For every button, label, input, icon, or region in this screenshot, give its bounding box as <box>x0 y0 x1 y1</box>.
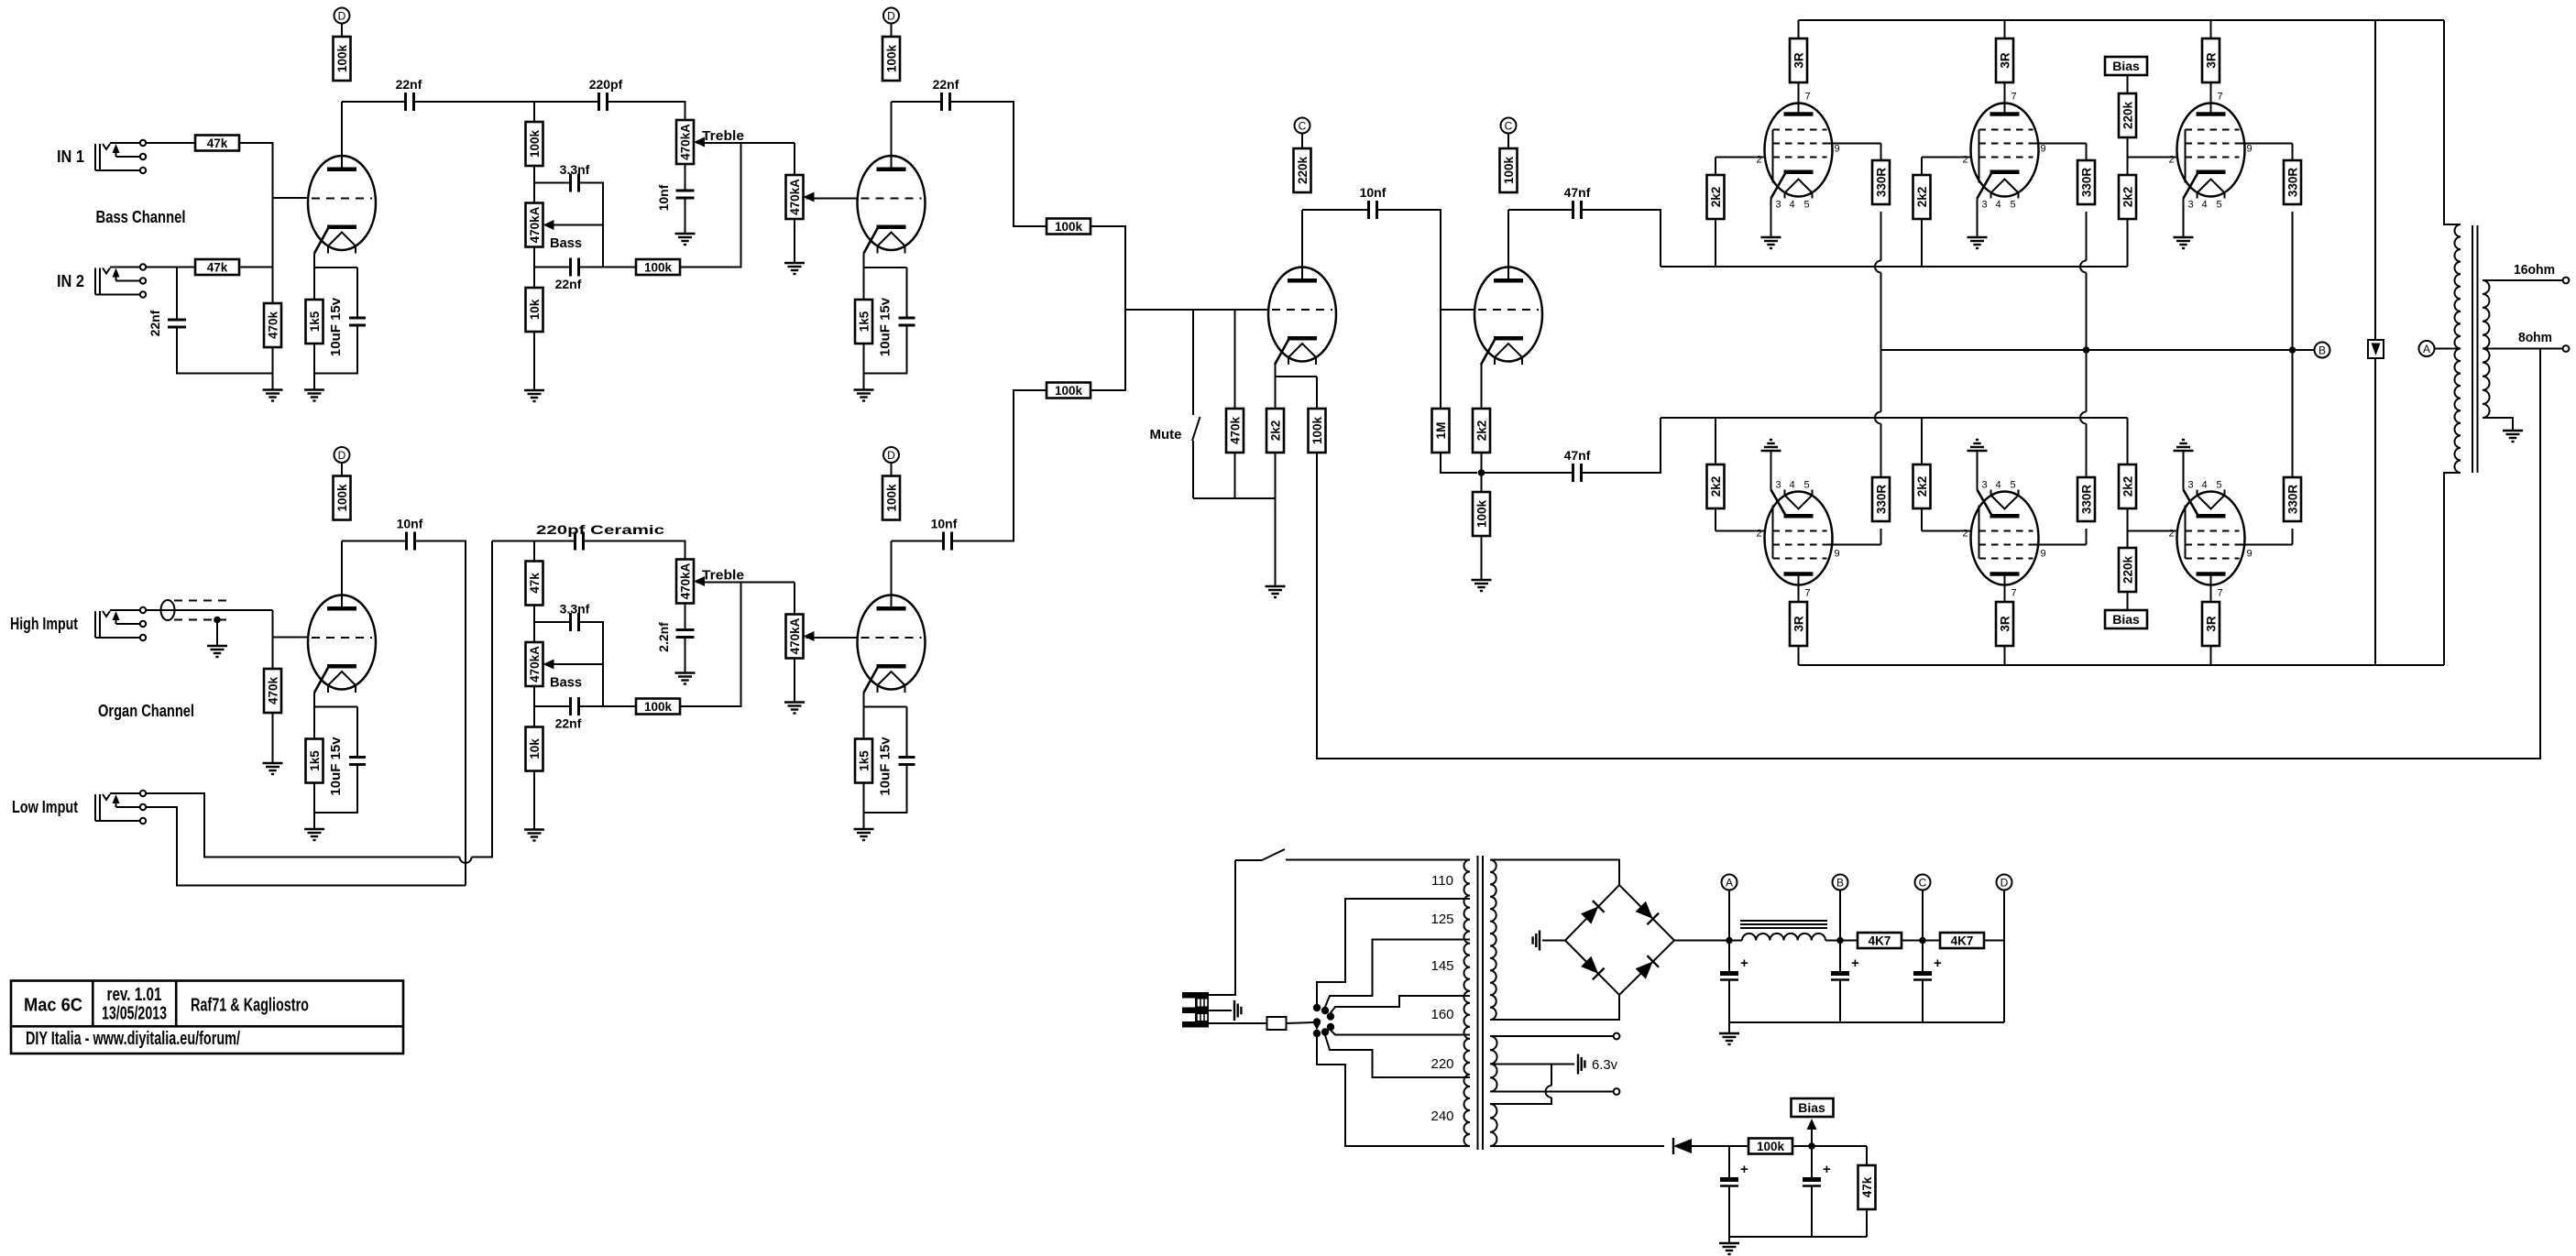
wire grid bus bottom <box>1661 417 2128 419</box>
wire 10k to ground <box>533 332 535 390</box>
resistor 2k2 R-g-top3 <box>2119 175 2136 219</box>
ground cathode top2 <box>1968 237 1988 248</box>
ground cathode top1 <box>1761 237 1781 248</box>
resistor 470k R-PI-470k <box>1226 409 1244 453</box>
resistor 100k R-plate-V1b <box>882 37 900 81</box>
resistor 1k5 R-k-V1b <box>855 300 872 344</box>
ground 1k5 V2b <box>854 829 874 840</box>
shielded cable <box>161 600 230 620</box>
resistor 100k R-k2-100k <box>1473 492 1490 536</box>
wire grid node down <box>272 610 274 638</box>
svg-text:Bias: Bias <box>2112 612 2140 627</box>
resistor 470k R-in-470k <box>264 303 281 347</box>
wire screen V1 <box>1827 143 1881 145</box>
wire 1k5 to ground <box>313 783 315 830</box>
svg-text:7: 7 <box>1805 588 1811 599</box>
wire 330R to screen bus <box>2292 212 2294 350</box>
svg-text:6.3v: 6.3v <box>1592 1057 1617 1073</box>
svg-text:4: 4 <box>1995 200 2001 211</box>
wire 3R top V1 <box>1798 20 1800 38</box>
wire low tip feed part1 <box>146 793 459 857</box>
ground shield <box>207 646 227 657</box>
resistor 47k R-in2-47k <box>195 259 239 275</box>
wire 2k2 to bus <box>1715 219 1716 267</box>
svg-text:22nf: 22nf <box>555 277 582 291</box>
svg-text:2: 2 <box>1963 155 1968 166</box>
pentode P5 bottom <box>1963 480 2046 599</box>
svg-text:10nf: 10nf <box>656 184 671 211</box>
svg-text:7: 7 <box>1805 92 1811 103</box>
capacitor C 220pf bass <box>599 93 608 111</box>
wire shield drop <box>216 620 218 647</box>
junction C <box>1919 937 1926 945</box>
wire plate to 47nf <box>1508 209 1573 211</box>
wire center to bias winding <box>1551 1065 1552 1087</box>
svg-text:Bias: Bias <box>2112 59 2140 73</box>
jack IN 2 <box>95 264 146 297</box>
svg-text:7: 7 <box>2011 92 2017 103</box>
wire 100k to ground <box>1481 536 1483 580</box>
resistor 470k R-in-470k organ <box>264 669 281 713</box>
svg-text:470k: 470k <box>1228 416 1242 444</box>
resistor 10k R-tone-10k <box>526 288 543 332</box>
wire 100k to D <box>891 463 893 476</box>
svg-text:C: C <box>1299 119 1307 132</box>
mains connector <box>1182 992 1209 1028</box>
svg-text:2k2: 2k2 <box>1474 420 1488 442</box>
electrolytic capacitor C filter 1887 <box>1720 956 1748 980</box>
selector contacts <box>1313 1004 1334 1037</box>
resistor 2k2 R-g-top1 <box>1707 175 1725 219</box>
capacitor C 22nf input <box>168 320 186 327</box>
wire cathode ground V4 <box>1770 451 1772 490</box>
wire tap 125 <box>1317 899 1470 1004</box>
wire volume wiper to V2b grid <box>806 637 859 639</box>
wire cathode ground V5 <box>1977 451 1979 490</box>
ground cathode bot2 <box>1968 440 1988 451</box>
svg-text:47nf: 47nf <box>1564 185 1591 200</box>
capacitor C 10uF V1a <box>349 318 366 325</box>
diode D2 <box>1636 901 1660 925</box>
electrolytic capacitor C bias 2 <box>1803 1162 1831 1186</box>
wire bridge to ground <box>1542 940 1565 942</box>
svg-text:Organ Channel: Organ Channel <box>98 702 194 720</box>
svg-text:Mute: Mute <box>1150 427 1182 442</box>
wire 16ohm tap <box>2483 279 2563 281</box>
wire 220pf to treble pot <box>584 541 685 560</box>
svg-text:8ohm: 8ohm <box>2518 330 2552 345</box>
resistor 2k2 R-g-bot3 <box>2119 464 2136 508</box>
wire 330R to screen bus <box>2086 212 2088 261</box>
svg-text:3: 3 <box>1981 200 1987 211</box>
svg-text:9: 9 <box>1835 144 1840 155</box>
potentiometer 470kA Volume pot organ <box>786 615 815 659</box>
node A <box>1722 875 1737 890</box>
svg-text:470kA: 470kA <box>788 617 802 654</box>
wire plate V5 <box>2004 574 2006 603</box>
wire cap1 to rail <box>1728 1186 1730 1237</box>
svg-text:240: 240 <box>1431 1109 1453 1124</box>
svg-text:D: D <box>887 9 895 22</box>
svg-text:220k: 220k <box>2121 101 2134 129</box>
resistor 220k R-plate-V3 <box>1294 148 1311 192</box>
electrolytic capacitor C filter 2008 <box>1831 956 1859 980</box>
svg-text:9: 9 <box>2247 144 2253 155</box>
svg-text:2k2: 2k2 <box>1709 476 1723 497</box>
svg-text:3R: 3R <box>1792 52 1805 69</box>
svg-text:2k2: 2k2 <box>1709 187 1723 208</box>
resistor 100k R-plate-V2a <box>334 476 351 520</box>
jack Low Imput <box>95 791 146 824</box>
svg-text:B: B <box>1836 876 1844 889</box>
resistor 100k R-plate-V4 <box>1500 148 1518 192</box>
wire PI1 grid bus <box>1125 309 1268 311</box>
capacitor C 10nf coupling V2b <box>944 532 952 551</box>
potentiometer 470kA Volume pot bass <box>786 175 815 219</box>
node A <box>2419 341 2435 356</box>
svg-text:3.3nf: 3.3nf <box>560 602 590 617</box>
wire rail to ground <box>1728 1022 1730 1033</box>
wire V4 plate <box>1507 210 1509 279</box>
wire 100k to D <box>891 24 893 38</box>
wire tap 160 <box>1331 996 1470 1013</box>
wire switch to primary <box>1286 859 1470 861</box>
node C <box>1295 118 1310 134</box>
wire A to choke <box>1729 940 1742 942</box>
wire cathode to cap <box>314 706 357 708</box>
resistor 330R R-s-bot3 <box>2284 477 2301 521</box>
wire bias winding out <box>1490 1145 1664 1147</box>
wire mix to PI grid <box>1091 310 1125 390</box>
power transformer primary <box>1463 860 1470 1147</box>
pentode P2 top <box>1963 92 2046 211</box>
wire bias cap2 <box>1811 1146 1813 1177</box>
triode V1b <box>858 156 926 254</box>
wire screen to 330R <box>1880 529 1882 545</box>
resistor 330R R-s-bot2 <box>2077 477 2095 521</box>
wire grid to tube V2a <box>273 637 309 639</box>
resistor 220k R-bias-bot <box>2119 548 2136 592</box>
resistor 3R R-a-bot3 <box>2202 602 2220 646</box>
svg-text:5: 5 <box>2010 200 2015 211</box>
svg-text:2k2: 2k2 <box>2121 476 2134 497</box>
capacitor C 22nf coupling V1b <box>942 93 950 111</box>
svg-text:9: 9 <box>2041 549 2046 560</box>
svg-text:16ohm: 16ohm <box>2514 262 2555 278</box>
wire V3 plate <box>1301 210 1303 279</box>
svg-text:10uF 15v: 10uF 15v <box>878 737 893 796</box>
pentode P1 top <box>1757 92 1840 211</box>
potentiometer 470kA Bass pot <box>526 203 554 247</box>
svg-text:1M: 1M <box>1434 422 1448 440</box>
svg-text:Raf71 & Kagliostro: Raf71 & Kagliostro <box>191 996 309 1016</box>
svg-text:125: 125 <box>1431 912 1453 927</box>
wire plate V4 <box>1798 574 1800 603</box>
wire 2k2 to bus <box>1921 418 1923 464</box>
capacitor C 22nf coupling V1a <box>406 93 414 111</box>
resistor 4K7 R-filter1 <box>1858 933 1902 948</box>
wire 220k to grid <box>2127 531 2129 549</box>
svg-text:2k2: 2k2 <box>1268 420 1282 442</box>
wire V2a plate <box>341 541 343 607</box>
resistor 2k2 R-g-top2 <box>1913 175 1931 219</box>
wire cathode ground V2 <box>1977 199 1979 238</box>
wire V1a cathode <box>313 254 315 300</box>
wire treble wiper <box>696 582 795 584</box>
svg-text:3.3nf: 3.3nf <box>560 162 590 177</box>
svg-text:IN 1: IN 1 <box>57 147 84 166</box>
wire tone node down <box>533 541 535 562</box>
wire 47k to slope node <box>533 606 535 643</box>
wire 3.3nf down leg <box>579 183 604 268</box>
resistor 100k R-mix-organ <box>1047 383 1091 399</box>
wire screen V5 <box>2033 544 2087 546</box>
triode V1a <box>308 156 376 254</box>
node C <box>1915 875 1931 890</box>
capacitor C 2.2nf treble organ <box>676 630 695 638</box>
wire bias cap1 <box>1728 1146 1730 1177</box>
wire 330R to screen bus <box>1880 212 1882 261</box>
wire filter rail <box>1729 1021 2004 1023</box>
node D <box>334 447 350 463</box>
wire cap drop <box>906 707 908 758</box>
mains switch blade <box>1262 849 1285 860</box>
wire 470k to rail <box>272 347 274 390</box>
svg-text:100k: 100k <box>1474 499 1488 528</box>
wire slope to 3.3nf <box>534 182 571 184</box>
resistor 1k5 R-k-V1a <box>306 300 323 344</box>
wire IN2 junction down to 22nf <box>176 268 178 321</box>
svg-text:9: 9 <box>2041 144 2046 155</box>
svg-text:4: 4 <box>2201 200 2207 211</box>
wire heater 1 <box>1490 1035 1614 1037</box>
ground volume bass <box>784 263 805 274</box>
node D <box>883 8 899 24</box>
wire 47k to rail <box>1866 1209 1868 1237</box>
wire V1b plate right <box>892 101 942 103</box>
svg-text:Low Imput: Low Imput <box>12 798 78 816</box>
wire 1k5 rail <box>863 344 865 374</box>
svg-text:220pf: 220pf <box>589 77 623 92</box>
wire screen bus to lower 330R <box>2292 350 2294 477</box>
wire 47nf to top bus <box>1582 210 1661 267</box>
triode V2b <box>858 595 926 694</box>
svg-text:3R: 3R <box>1998 52 2011 69</box>
svg-text:5: 5 <box>2010 480 2015 491</box>
wire volume pot bottom <box>794 659 795 703</box>
svg-text:Bass Channel: Bass Channel <box>96 208 186 226</box>
wire 47k to junction <box>239 267 273 268</box>
wire grid V5 <box>1922 530 1971 532</box>
wire wiper down to volume pot <box>794 583 795 615</box>
svg-text:+: + <box>1934 956 1942 971</box>
wire slope to 3.3nf <box>534 621 571 623</box>
wire grid V4 <box>1716 530 1765 532</box>
ground 10k organ <box>524 830 544 841</box>
svg-text:330R: 330R <box>2286 485 2299 515</box>
wire cathode ground V1 <box>1770 199 1772 238</box>
svg-text:22nf: 22nf <box>933 77 959 92</box>
ground treble organ <box>675 673 696 684</box>
wire grid V6 <box>2128 530 2177 532</box>
wire 22nf tone row <box>534 267 571 268</box>
wire cap to rail <box>1922 980 1924 1022</box>
svg-text:5: 5 <box>1803 200 1809 211</box>
wire cap to rail <box>1839 980 1841 1022</box>
svg-text:DIY Italia - www.diyitalia.eu/: DIY Italia - www.diyitalia.eu/forum/ <box>26 1029 240 1049</box>
junction screen bus B <box>2289 346 2296 354</box>
wire 3.3nf down leg <box>579 622 604 706</box>
electrolytic capacitor C bias 1 <box>1720 1162 1748 1186</box>
svg-text:D: D <box>338 9 346 22</box>
bias diode <box>1673 1138 1692 1154</box>
wire 10nf to V4 grid <box>1377 210 1441 310</box>
svg-text:7: 7 <box>2011 588 2017 599</box>
svg-text:47nf: 47nf <box>1564 448 1591 463</box>
svg-text:220: 220 <box>1431 1056 1453 1072</box>
wire V1b plate <box>891 102 893 168</box>
svg-text:100k: 100k <box>1502 156 1516 184</box>
resistor 1k5 R-k-V2b <box>855 739 872 783</box>
wire 220pf to treble pot <box>608 102 685 120</box>
wire treble pot bottom <box>685 604 686 630</box>
arrow box <box>2368 340 2384 358</box>
wire V2b plate right <box>892 541 944 542</box>
svg-text:1k5: 1k5 <box>308 311 322 332</box>
wire 470k bottom <box>1234 453 1236 498</box>
ground 1k5 V1b <box>854 390 874 401</box>
ground secondary <box>2503 431 2523 442</box>
svg-text:470k: 470k <box>266 311 280 339</box>
capacitor C 22nf organ tone <box>571 697 579 715</box>
wire mute row <box>1193 497 1276 499</box>
resistor 100k R-tone-out organ <box>636 699 680 715</box>
ground volume organ <box>784 703 805 714</box>
svg-text:D: D <box>887 449 895 462</box>
wire 3R bottom V4 <box>1798 646 1800 665</box>
wire tap 240 <box>1325 1035 1470 1077</box>
wire center tap to A <box>2435 348 2461 350</box>
svg-text:rev. 1.01: rev. 1.01 <box>107 985 162 1005</box>
wire V2b plate <box>891 541 893 607</box>
resistor 3R R-a-bot1 <box>1790 602 1807 646</box>
svg-text:100k: 100k <box>644 260 673 274</box>
wire OT primary bottom <box>2444 473 2461 665</box>
wire screen bus to lower 330R <box>1880 350 1882 412</box>
svg-text:Bass: Bass <box>550 235 582 251</box>
wire D down <box>2003 890 2005 1023</box>
node C <box>1501 118 1517 134</box>
wire 100k to slope node <box>533 166 535 203</box>
wire 4K7 to C <box>1902 940 1940 942</box>
svg-text:220pf Ceramic: 220pf Ceramic <box>536 522 664 537</box>
node B <box>1833 875 1848 890</box>
ground bridge <box>1533 931 1540 951</box>
wire 100k to D <box>341 24 343 38</box>
wire cap2 to rail <box>1811 1186 1813 1237</box>
transformer core <box>2472 225 2478 473</box>
wire feedback <box>1317 349 2540 759</box>
junction B <box>1836 937 1844 945</box>
wire IN2 tip to 47k <box>146 267 195 268</box>
wire grid to 2k2 <box>1921 158 1923 176</box>
resistor 1k5 R-k-V2a <box>306 739 323 783</box>
svg-text:4: 4 <box>1789 200 1794 211</box>
wire 470k top <box>1234 310 1236 409</box>
ground cathode bot3 <box>2174 440 2194 451</box>
wire B up <box>1839 890 1841 949</box>
capacitor C 22nf bass tone <box>571 258 579 277</box>
wire to 100k mix <box>579 705 637 707</box>
wire screen feed line <box>2374 20 2376 340</box>
wire screen V4 <box>1827 544 1881 546</box>
svg-text:47k: 47k <box>207 137 228 150</box>
svg-text:470kA: 470kA <box>678 562 692 599</box>
wire bass wiper <box>545 224 603 226</box>
wire 2k2 to node <box>1481 453 1483 473</box>
wire plate bus bottom <box>1799 664 2445 666</box>
svg-text:Treble: Treble <box>702 568 744 584</box>
resistor 4K7 R-filter2 <box>1940 933 1984 948</box>
wire center to bias winding 2 <box>1490 1098 1551 1104</box>
wire 470k to ground <box>272 713 274 763</box>
svg-text:3R: 3R <box>2204 616 2218 632</box>
wire bass wiper <box>545 663 603 665</box>
power transformer bias winding <box>1490 1104 1497 1146</box>
wire 220k to grid <box>2127 137 2129 158</box>
potentiometer 470kA Treble pot bass <box>676 120 705 164</box>
svg-text:100k: 100k <box>1757 1140 1785 1153</box>
diode D3 <box>1581 956 1605 980</box>
wire cap to rail <box>314 325 357 374</box>
wire 100k to C <box>1507 134 1509 149</box>
resistor 100k R-fb-100k <box>1309 409 1326 453</box>
svg-text:3: 3 <box>1775 480 1781 491</box>
wire 2k2 to ground <box>1275 453 1277 586</box>
wire wiper down to volume pot <box>794 143 795 175</box>
svg-text:330R: 330R <box>2286 168 2299 198</box>
bias arrow <box>1807 1119 1817 1146</box>
wire tap 145 <box>1325 940 1470 1008</box>
svg-text:330R: 330R <box>1874 168 1888 198</box>
ground 470k <box>263 390 283 401</box>
resistor 330R R-s-bot1 <box>1872 477 1890 521</box>
wire 8ohm tap <box>2483 348 2563 350</box>
wire 100k to node <box>1792 1145 1867 1147</box>
resistor 47k R-tone-47k organ <box>526 562 543 606</box>
output transformer secondary <box>2483 280 2490 418</box>
triode V2a <box>308 595 376 694</box>
svg-text:3R: 3R <box>1792 616 1805 632</box>
svg-text:2: 2 <box>1963 529 1968 540</box>
wire 2k2 to bus <box>1921 219 1923 267</box>
wire tone node down <box>533 102 535 122</box>
wire grid to 2k2 <box>1715 508 1716 531</box>
svg-text:3: 3 <box>2187 200 2193 211</box>
svg-text:9: 9 <box>2247 549 2253 560</box>
electrolytic capacitor C filter 2098 <box>1913 956 1942 980</box>
wire screen V2 <box>2033 143 2087 145</box>
wire plate bus top <box>1799 19 2445 21</box>
wire 1M bottom <box>1441 453 1477 473</box>
wire 220k to C <box>1301 134 1303 149</box>
resistor 330R R-s-top1 <box>1872 160 1890 204</box>
ground 1k5 <box>304 390 324 401</box>
node D <box>883 447 899 463</box>
wire grid to tube V1 <box>273 197 309 199</box>
ground filter <box>1719 1033 1739 1044</box>
resistor 220k R-bias-top <box>2119 93 2136 137</box>
